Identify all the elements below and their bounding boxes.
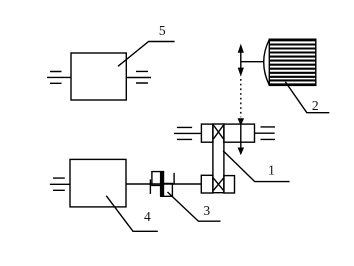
- arrowhead into coupler top: [239, 119, 243, 124]
- connector 3 : right tick: [173, 173, 175, 184]
- svg-text:3: 3: [203, 203, 210, 218]
- box 5 (laser source block): [71, 53, 126, 100]
- svg-text:2: 2: [312, 98, 319, 113]
- coupler 1 : top X: [214, 125, 224, 139]
- connector 3 : thick middle bar: [160, 172, 164, 197]
- coupler 1 : bottom right box: [224, 176, 235, 193]
- coupler 1 : top right box: [224, 124, 255, 142]
- connector 3 : lower square: [160, 183, 172, 196]
- leader line 1: [223, 151, 290, 182]
- svg-text:1: 1: [268, 163, 275, 178]
- double arrow (movement of grating): [240, 49, 242, 71]
- wire from box 4 through connector 3 to coupler 1: [126, 183, 201, 185]
- wire from arrow to lens: [241, 61, 264, 63]
- leader line 5: [118, 42, 175, 67]
- arrow through coupler right box: [240, 124, 242, 147]
- coupler 1 : right port: [255, 127, 276, 139]
- left port of box 4: [50, 178, 70, 190]
- lens arc of grating 2: [264, 40, 270, 86]
- box 4 (photodetector block): [70, 159, 126, 207]
- grating 2 (striped block): [269, 39, 316, 85]
- dotted line from arrow down to coupler: [240, 79, 242, 117]
- coupler 1 : bottom X: [213, 178, 223, 190]
- left port of box 5: [47, 72, 71, 84]
- connector 3 : upper square: [152, 172, 164, 186]
- leader line 4: [106, 196, 158, 232]
- leader line 3: [168, 192, 221, 221]
- svg-text:5: 5: [159, 23, 166, 38]
- coupler 1 : left port: [174, 127, 201, 139]
- leader line 2: [285, 82, 329, 113]
- coupler 1 : vertical body: [213, 124, 224, 193]
- svg-text:4: 4: [144, 209, 151, 224]
- right port of box 5: [126, 71, 151, 83]
- coupler 1 : bottom left box: [201, 175, 213, 193]
- coupler 1 : top left box: [201, 124, 213, 142]
- connector 3 : left tick: [149, 179, 151, 194]
